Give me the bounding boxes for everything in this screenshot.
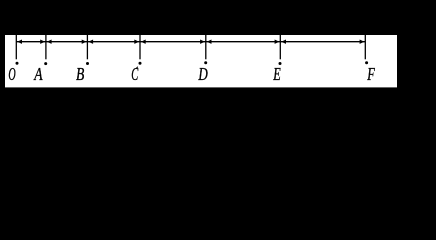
svg-text:D: D: [198, 64, 208, 84]
tick O: [15, 35, 17, 59]
arrowhead left of segment E-F: [281, 40, 286, 44]
svg-text:A: A: [34, 64, 44, 84]
arrowhead right of segment E-F: [360, 40, 365, 44]
tick F: [364, 35, 366, 59]
arrowhead right of segment B-C: [134, 40, 139, 44]
arrowhead left of segment C-D: [141, 40, 146, 44]
arrowhead left of segment A-B: [47, 40, 52, 44]
arrowhead left of segment B-C: [88, 40, 93, 44]
arrowhead right of segment O-A: [40, 40, 45, 44]
black background: [0, 0, 436, 98]
number line: [16, 41, 365, 43]
tick E: [279, 35, 281, 59]
arrowhead right of segment C-D: [200, 40, 205, 44]
svg-text:B: B: [76, 64, 84, 84]
tick B: [86, 35, 88, 59]
svg-text:O: O: [8, 64, 15, 84]
svg-text:F: F: [367, 64, 376, 84]
point dot C: [139, 62, 142, 65]
arrowhead right of segment D-E: [275, 40, 280, 44]
point dot B: [86, 62, 89, 65]
scan mark above C label: [136, 67, 138, 69]
point dot A: [44, 62, 47, 65]
arrowhead right of segment A-B: [82, 40, 87, 44]
point dot F: [365, 61, 368, 64]
tick D: [205, 35, 207, 59]
white panel: [5, 35, 397, 87]
tick C: [139, 35, 141, 59]
point dot D: [204, 61, 207, 64]
tick A: [45, 35, 47, 59]
point dot E: [279, 62, 282, 65]
arrowhead left of segment D-E: [207, 40, 212, 44]
arrowhead left of segment O-A: [17, 40, 22, 44]
svg-text:E: E: [273, 64, 281, 84]
point dot O: [16, 62, 19, 65]
